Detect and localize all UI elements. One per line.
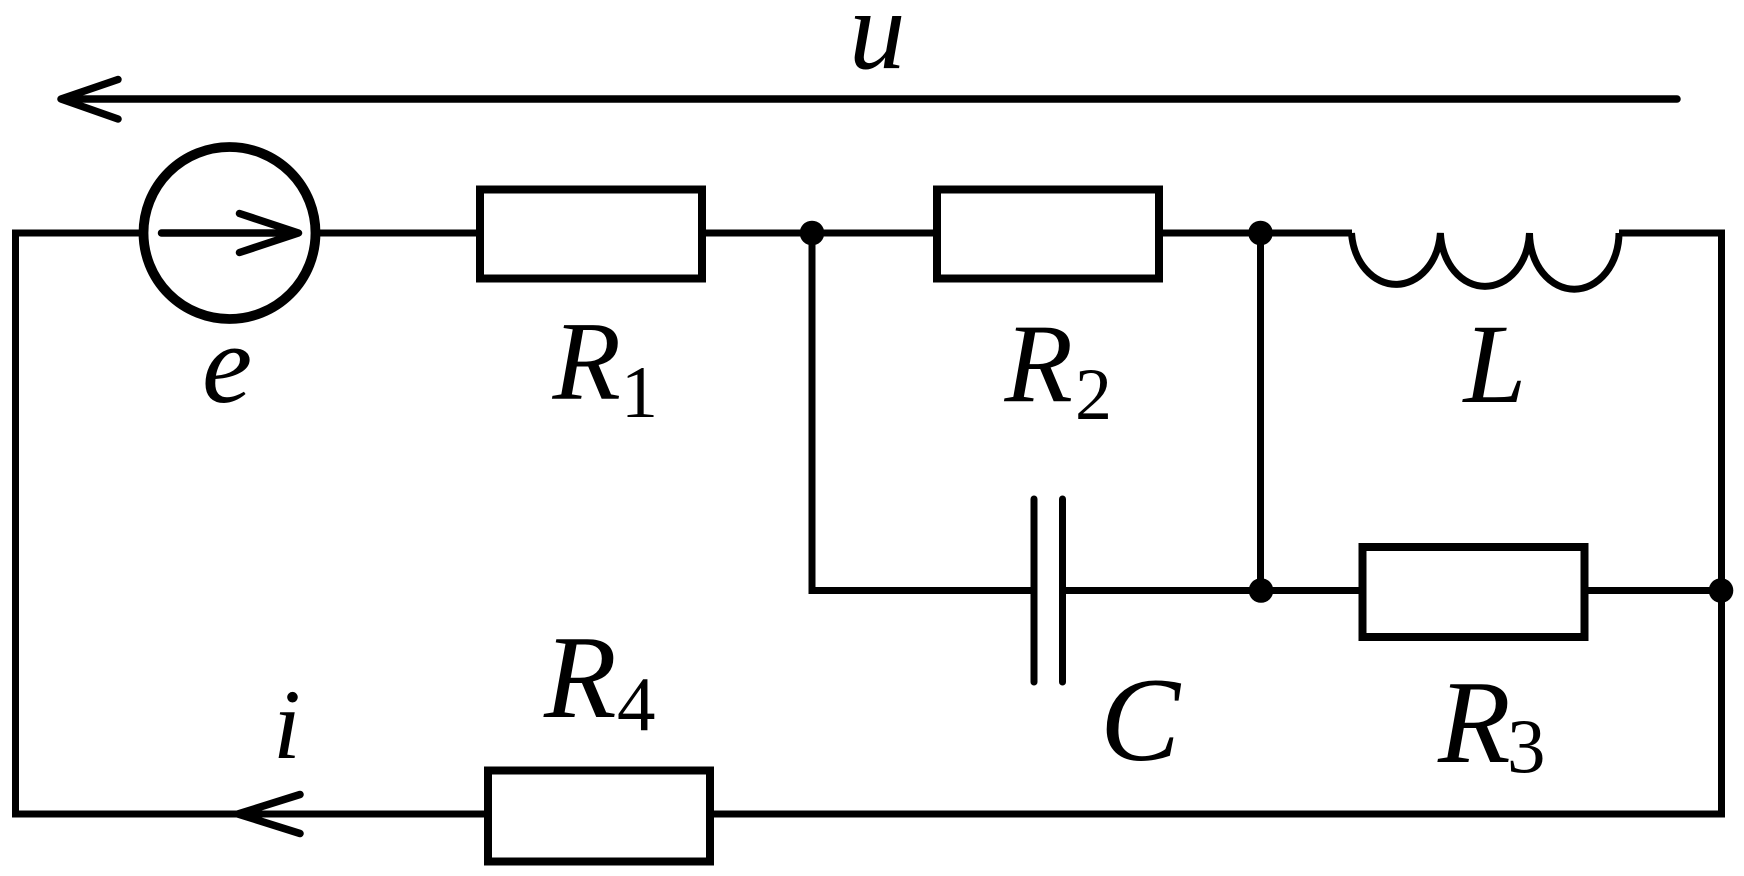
resistor R1 (480, 190, 702, 279)
wire: bottom rail right segment (710, 811, 1722, 818)
svg-text:u: u (849, 0, 906, 93)
svg-text:1: 1 (621, 352, 658, 434)
svg-text:e: e (202, 302, 252, 427)
svg-text:R: R (1004, 303, 1073, 427)
node B (junction R2 / L / capacitor-R3 branch) (1248, 221, 1273, 246)
source e (circle with right-pointing arrow) (144, 147, 316, 319)
svg-text:i: i (273, 669, 301, 780)
svg-text:R: R (543, 611, 617, 743)
svg-text:3: 3 (1507, 703, 1546, 789)
wire: R3 to right rail (1585, 587, 1722, 594)
node D (junction R3 / right rail) (1709, 578, 1734, 603)
wire: node B down to node C (1257, 233, 1264, 591)
wire: capacitor right plate to node C (1063, 587, 1262, 594)
svg-text:R: R (1437, 656, 1511, 788)
wire: source to R1 (316, 230, 482, 237)
svg-text:L: L (1462, 302, 1527, 427)
arrow i head (current direction on bottom rail) (238, 795, 300, 834)
wire: R1 to R2 (through node A) (702, 230, 938, 237)
svg-text:4: 4 (617, 661, 656, 747)
wire: left rail (source left lead, down left side to bottom rail) (16, 233, 147, 818)
svg-text:2: 2 (1075, 354, 1112, 436)
wire: node A down and right to capacitor left plate (812, 233, 1034, 591)
node C (junction capacitor / node-B branch / R3) (1249, 578, 1274, 603)
wire: node C to R3 (1261, 587, 1363, 594)
resistor R3 (1363, 547, 1585, 637)
wire: right rail (1718, 233, 1725, 818)
node A (junction R1 / R2 / capacitor branch) (800, 221, 825, 246)
wire: inductor to right rail (top-right corner) (1619, 233, 1722, 240)
svg-text:R: R (552, 300, 621, 424)
wire: R2 to inductor (through node B) (1159, 230, 1352, 237)
svg-text:C: C (1100, 653, 1182, 786)
wire: bottom rail left segment (16, 811, 490, 818)
resistor R2 (937, 190, 1159, 279)
inductor L (three arcs) (1352, 233, 1620, 289)
arrow u (voltage reference arrow, pointing left) (61, 80, 1677, 120)
resistor R4 (488, 771, 710, 862)
capacitor C (two plates) (1034, 499, 1063, 682)
